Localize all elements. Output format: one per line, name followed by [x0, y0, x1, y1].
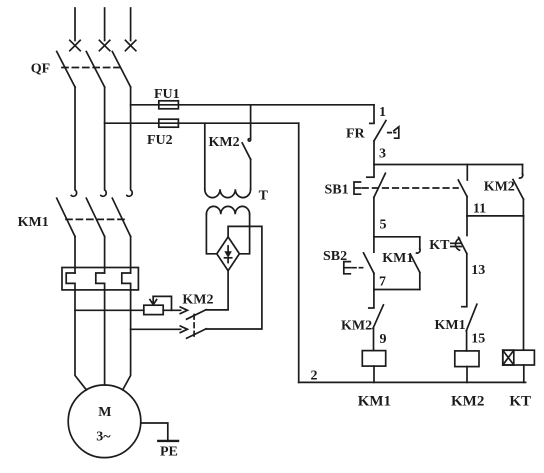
svg-text:PE: PE	[160, 445, 178, 460]
wire node 7 horizontal	[374, 289, 420, 291]
thermal relay FR NC contact seat	[370, 122, 374, 124]
time relay KT delayed contact wire	[466, 216, 468, 236]
wire contact B to rectifier plus	[206, 226, 262, 329]
contactor KM1 main contact pole 3 terminal hook	[127, 190, 132, 196]
wire node 13	[466, 254, 468, 306]
svg-text:SB1: SB1	[325, 183, 349, 198]
wire KT coil branch	[523, 216, 525, 350]
resistor wiper arrow	[152, 296, 154, 303]
svg-text:KM1: KM1	[382, 251, 413, 266]
KM1 mechanical linkage dashed	[66, 218, 124, 220]
svg-text:KT: KT	[429, 238, 450, 253]
FR heater element phase 3	[122, 273, 131, 290]
svg-text:T: T	[259, 188, 269, 203]
wire L3 KM1 to FR heater	[130, 237, 132, 274]
svg-text:15: 15	[471, 332, 485, 347]
thermal relay FR NC contact blade	[374, 121, 386, 141]
svg-text:1: 1	[379, 105, 386, 120]
svg-text:2: 2	[311, 369, 318, 384]
wire motor to PE	[141, 423, 168, 441]
breaker X terminal pole 3	[125, 40, 135, 50]
QF mechanical linkage dashed	[62, 67, 122, 69]
SB2 actuator E	[344, 262, 351, 274]
wire U to motor	[75, 290, 86, 390]
svg-text:M: M	[98, 405, 111, 420]
pushbutton SB2 NO wire	[373, 237, 375, 252]
svg-text:11: 11	[473, 201, 486, 216]
wire L2 QF to KM1	[104, 87, 106, 190]
breaker X terminal pole 2	[99, 40, 109, 50]
contactor KM1 main contact pole 1 terminal hook	[71, 190, 76, 196]
fuse FU1	[159, 101, 179, 109]
wire contact to primary right lead	[250, 159, 252, 189]
wire braking line from L1 to resistor	[75, 309, 144, 311]
contactor KM2 self-hold wire right	[522, 165, 524, 175]
wire braking line from W to contact B	[131, 328, 181, 330]
wire L1 QF to KM1	[74, 87, 76, 190]
SB1 NO pole 2 blade	[458, 180, 467, 197]
circuit breaker QF pole 1 blade	[57, 52, 75, 88]
wire L2 incoming supply	[104, 8, 106, 41]
svg-text:7: 7	[379, 275, 386, 290]
wire FU2 branch from L2	[105, 122, 299, 124]
wire node 1 from FU1 line	[373, 105, 375, 123]
coil KT	[503, 350, 535, 365]
wire W to motor	[123, 290, 131, 390]
resistor R braking	[144, 305, 163, 314]
svg-text:KM1: KM1	[358, 393, 391, 409]
wire L1 KM1 to FR heater	[74, 237, 76, 274]
coil KM1	[362, 351, 385, 367]
svg-text:3~: 3~	[96, 429, 111, 444]
contactor KM2 NC interlock wire	[373, 290, 375, 308]
wire KM2 self-hold to node 11	[522, 199, 524, 216]
svg-text:KM2: KM2	[341, 319, 372, 334]
contactor KM1 NC interlock seat	[462, 306, 467, 308]
KM2 self-hold terminal hook	[520, 174, 523, 178]
SB2 NO blade	[364, 253, 374, 273]
wire KM1 self-hold to node 7	[419, 272, 421, 289]
wire node 2 bottom rail	[299, 381, 526, 383]
svg-text:KM2: KM2	[451, 393, 484, 409]
wire SB2 to node 7	[373, 273, 375, 289]
svg-text:KM1: KM1	[18, 215, 49, 230]
contactor KM1 main contact pole 3 blade	[112, 198, 130, 236]
SB1 actuator E	[354, 182, 361, 194]
wire V to motor	[104, 290, 106, 385]
wire KM1 coil to node 2	[373, 366, 375, 382]
resistor wiper loop wire	[153, 296, 171, 310]
KM2 transformer contact terminal dot	[248, 139, 250, 141]
SB1 NC blade	[374, 173, 386, 197]
wire KT coil to node 2	[523, 365, 525, 382]
contactor KM1 main contact pole 2 blade	[86, 198, 104, 236]
circuit breaker QF pole 3 blade	[112, 52, 130, 88]
KT coil delay section	[503, 350, 514, 365]
SB2 linkage dashed	[352, 267, 363, 269]
svg-text:QF: QF	[31, 62, 50, 77]
wire secondary left lead to bridge	[206, 214, 216, 254]
KM2 NC interlock blade	[373, 305, 383, 329]
svg-text:KM2: KM2	[484, 179, 515, 194]
KM2 self-hold blade	[513, 180, 523, 200]
KM1 self-holding terminal hook	[417, 249, 421, 253]
svg-text:5: 5	[380, 218, 387, 233]
KM2 NC interlock seat	[369, 307, 374, 309]
wire node 9	[373, 328, 375, 350]
wire L2 KM1 to FR heater	[104, 237, 106, 274]
wire node 5	[373, 197, 375, 236]
breaker X terminal pole 1	[70, 40, 80, 50]
transformer T primary winding	[205, 189, 251, 197]
KM2 braking contacts linkage dashed	[193, 315, 195, 339]
KM1 NC interlock blade	[466, 304, 477, 331]
KM2 braking contact A blade	[187, 310, 207, 320]
thermal relay FR heater box	[62, 268, 138, 290]
wire L3 incoming supply	[130, 8, 132, 41]
bridge rectifier diode symbol	[227, 246, 229, 263]
wire node 3 horizontal	[374, 164, 523, 166]
KM2 braking contact A arrowhead	[180, 307, 187, 314]
SB1 linkage dashed to pole 2	[363, 187, 459, 189]
KT delay symbol arc	[455, 239, 459, 251]
svg-text:FU1: FU1	[154, 87, 180, 102]
FR heater element phase 1	[66, 273, 75, 290]
FR trip linkage dashed	[388, 132, 396, 134]
svg-text:KM1: KM1	[435, 318, 466, 333]
wire KM2 contact above T from FU1 line	[250, 105, 252, 139]
bridge rectifier VC diamond	[217, 237, 240, 271]
wire contact A to rectifier minus	[206, 271, 228, 310]
wire resistor to KM2 braking contact A	[163, 309, 180, 311]
svg-text:KM2: KM2	[182, 293, 213, 308]
wire control rail left from FU2	[298, 123, 300, 382]
contactor KM1 main contact pole 1 blade	[57, 198, 75, 236]
svg-text:9: 9	[380, 332, 387, 347]
KM1 self-holding blade	[410, 254, 419, 272]
SB1 NC seat	[367, 176, 374, 178]
contactor KM1 main contact pole 2 terminal hook	[101, 190, 106, 196]
pushbutton SB1 NO pole 2 wire	[466, 165, 468, 181]
circuit breaker QF pole 2 blade	[86, 52, 104, 88]
transformer T secondary winding	[206, 206, 249, 214]
svg-text:KM2: KM2	[209, 135, 240, 150]
wire SB1 pole 2 to node 11	[466, 197, 468, 216]
wire transformer primary left lead	[204, 123, 206, 189]
wire L3 QF to KM1	[130, 87, 132, 190]
coil KM2	[455, 351, 479, 367]
wire secondary right lead to bridge	[239, 214, 249, 254]
ground bar PE	[158, 440, 178, 442]
svg-text:13: 13	[471, 263, 485, 278]
KM2 braking contact B arrowhead	[180, 326, 187, 333]
KM1 self-holding contact wire	[419, 237, 421, 249]
svg-text:KT: KT	[509, 393, 531, 409]
KT delayed contact blade	[459, 237, 467, 253]
svg-text:FR: FR	[346, 127, 366, 142]
KM2 braking contact B blade	[187, 329, 207, 339]
wire node 15	[466, 331, 468, 351]
svg-text:3: 3	[379, 147, 386, 162]
motor M circle	[68, 385, 141, 458]
FR trip flag symbol	[394, 127, 399, 138]
wire node 11 horizontal	[467, 215, 524, 217]
wire node 3	[373, 141, 375, 165]
wire L1 incoming supply	[74, 8, 76, 41]
wire FU1 branch from L3	[131, 104, 374, 106]
wire node 5 horizontal	[374, 236, 420, 238]
svg-text:SB2: SB2	[323, 249, 347, 264]
FR heater element phase 2	[96, 273, 105, 290]
fuse FU2	[159, 119, 179, 127]
wire KM2 coil to node 2	[466, 367, 468, 383]
pushbutton SB1 NC pole wire	[373, 165, 375, 177]
KM2 transformer contact blade	[242, 143, 250, 159]
svg-text:FU2: FU2	[147, 133, 173, 148]
KT delay symbol bars	[451, 243, 462, 246]
